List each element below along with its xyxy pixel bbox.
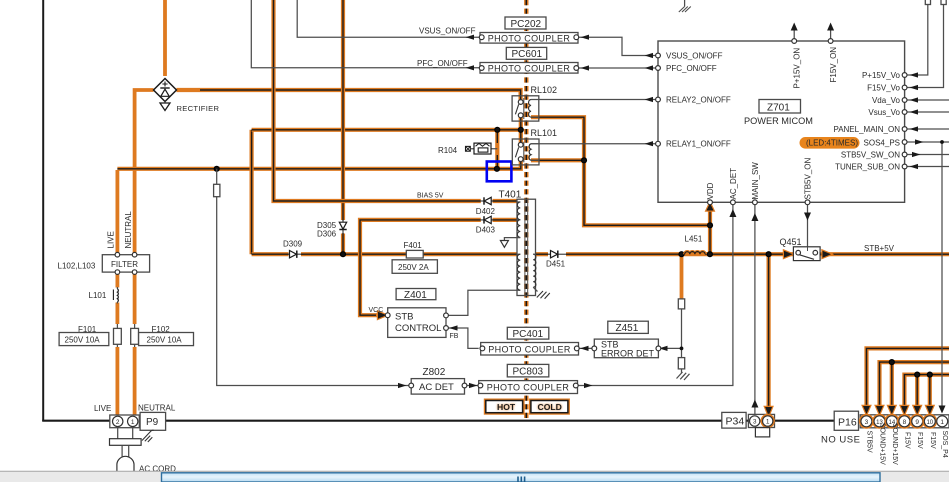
svg-text:PHOTO COUPLER: PHOTO COUPLER xyxy=(487,383,570,393)
IC Z401 STB CONTROL xyxy=(385,308,448,338)
svg-text:PC202: PC202 xyxy=(511,19,542,30)
arrow into PC202 right pin xyxy=(581,35,590,40)
svg-text:1: 1 xyxy=(131,419,135,426)
arrow after PC803 rightward xyxy=(584,383,593,388)
wire STB error det sense drop (x=681.5) xyxy=(680,254,684,299)
svg-text:PFC_ON/OFF: PFC_ON/OFF xyxy=(417,59,468,68)
switch Q451 xyxy=(793,247,820,261)
pin RELAY1_ON/OFF xyxy=(656,140,731,149)
arrow out of Q451 xyxy=(823,251,832,258)
photo coupler PC601 body xyxy=(479,63,578,74)
wire sense divider chain xyxy=(681,309,683,373)
photo coupler PC401 body xyxy=(480,343,579,356)
IC Z451 STB ERROR DET xyxy=(592,339,661,358)
connector P9 label box xyxy=(140,412,166,430)
diode D451 xyxy=(548,251,566,258)
relay RL102 xyxy=(512,96,539,121)
label D305 D306 xyxy=(317,221,337,239)
wire PC401 output to STB ERROR DET xyxy=(578,347,595,349)
wire AC input to rectifier (vertical from top) xyxy=(163,0,167,76)
svg-text:AC_DET: AC_DET xyxy=(729,168,738,200)
resistor top right 2 xyxy=(941,0,946,5)
svg-text:PHOTO COUPLER: PHOTO COUPLER xyxy=(488,33,571,43)
pin PFC_ON/OFF xyxy=(656,64,717,73)
pin Vda_Vo xyxy=(872,96,907,105)
svg-text:VDD: VDD xyxy=(706,182,715,199)
wire live feed filter to fuse F101 and P9 xyxy=(116,272,120,287)
pin SOS4_PS xyxy=(806,138,907,147)
IC Z701 POWER MICOM body xyxy=(658,41,905,202)
svg-text:Vda_Vo: Vda_Vo xyxy=(872,96,901,105)
svg-text:3: 3 xyxy=(753,419,757,426)
connector P34 pin 1 xyxy=(761,415,774,428)
svg-text:RL101: RL101 xyxy=(531,128,558,138)
diode D402 xyxy=(481,197,493,204)
wire neutral feed filter to fuse F102 and P9 xyxy=(133,272,137,324)
pin P+15V_Vo xyxy=(862,71,907,80)
resistor R104 xyxy=(470,143,497,154)
arrow up into VDD pin xyxy=(707,203,714,211)
wire P16 pin10 branch xyxy=(928,375,932,410)
svg-text:P34: P34 xyxy=(726,415,745,427)
svg-text:VSUS_ON/OFF: VSUS_ON/OFF xyxy=(666,51,723,60)
schematic border frame left xyxy=(42,0,44,421)
arrow right on STB5V_SW_ON xyxy=(912,152,921,157)
pin F15V_Vo xyxy=(867,83,907,92)
resistor on AC detect sense line xyxy=(214,184,220,196)
wire VSUS_ON/OFF from top to PC202 xyxy=(297,0,479,37)
photo coupler PC803 body xyxy=(478,381,578,394)
photo coupler PC202 label box xyxy=(505,17,546,30)
wire D403 VCC feed to STB CONTROL xyxy=(360,220,517,315)
ground slanted at T401 secondary xyxy=(537,291,550,299)
wire branch to D309 (x=251.6 vertical) xyxy=(250,130,254,254)
connector P34 key tab xyxy=(755,428,769,437)
filter pin top neutral xyxy=(132,252,137,257)
arrow up on MAIN_SW near Z701 xyxy=(751,213,758,221)
svg-text:NEUTRAL: NEUTRAL xyxy=(138,404,176,413)
diode D309 xyxy=(289,251,302,258)
connector P16 pin row box xyxy=(860,415,949,428)
inductor L101 xyxy=(113,287,118,304)
svg-text:STB5V_SW_ON: STB5V_SW_ON xyxy=(841,150,900,159)
wire AC DET to PC803 xyxy=(467,385,479,387)
photo coupler PC601 label box xyxy=(506,47,546,60)
svg-text:PC601: PC601 xyxy=(512,49,543,60)
arrow right on SOS4_PS xyxy=(915,139,924,144)
connector P34 pin 3 xyxy=(750,416,760,426)
wire F15V_Vo to top resistor xyxy=(906,4,944,88)
svg-text:STB5V: STB5V xyxy=(865,431,872,454)
svg-text:2: 2 xyxy=(116,419,120,426)
fuse F101 xyxy=(114,324,122,347)
connector P9 pin 2 xyxy=(113,416,123,426)
svg-text:RELAY1_ON/OFF: RELAY1_ON/OFF xyxy=(666,140,731,149)
highlight blue box xyxy=(487,162,512,182)
svg-text:TUNER_SUB_ON: TUNER_SUB_ON xyxy=(835,162,900,171)
pin PANEL_MAIN_ON xyxy=(833,125,907,134)
arrow left on TUNER_SUB_ON xyxy=(910,164,919,169)
svg-text:SOUND+15V: SOUND+15V xyxy=(891,423,898,465)
wire Vsus_Vo to right edge xyxy=(906,111,949,113)
wire MAIN_SW Z701 down to P34 pin3 xyxy=(754,204,756,415)
svg-text:PC803: PC803 xyxy=(513,366,544,377)
wire y=130 rail to relay contacts xyxy=(252,128,521,132)
arrow into FB pin xyxy=(449,325,458,330)
wire P16 pin8 feed xyxy=(904,375,949,410)
ground chassis top center xyxy=(679,0,691,12)
AC plug leads xyxy=(118,428,133,439)
pin VSUS_ON/OFF xyxy=(656,51,723,60)
wire PFC_ON/OFF from top to PC601 xyxy=(251,0,479,68)
svg-text:1: 1 xyxy=(766,419,770,426)
junction dots on orange wires xyxy=(214,166,220,172)
svg-text:LIVE: LIVE xyxy=(94,404,111,413)
wire RELAY2_ON/OFF RL102 coil to Z701 xyxy=(531,99,656,101)
IC Z802 AC DET xyxy=(409,379,467,395)
transformer T401 xyxy=(517,199,538,295)
svg-text:PANEL_MAIN_ON: PANEL_MAIN_ON xyxy=(833,125,900,134)
svg-text:RECTIFIER: RECTIFIER xyxy=(177,104,220,113)
svg-text:P9: P9 xyxy=(146,417,159,428)
label COLD box xyxy=(531,401,568,413)
wire D309 / F401 line to T401 primary xyxy=(252,252,517,256)
diode D305/D306 xyxy=(339,221,346,234)
arrow down into P16 pin1 xyxy=(939,406,946,414)
wire live riser from filter to LIVE rail xyxy=(116,170,120,255)
schematic border frame bottom xyxy=(42,420,949,422)
pin AC_DET (bottom) xyxy=(729,168,738,205)
wire STB5V_ON Z701 down to Q451 xyxy=(807,204,809,247)
wire Vda_Vo to right edge xyxy=(906,99,949,101)
pin P+15V_ON (top) xyxy=(792,39,802,89)
svg-text:STB+5V: STB+5V xyxy=(864,244,895,253)
svg-text:L101: L101 xyxy=(89,291,107,300)
arrow into STB ERROR DET right pin xyxy=(659,346,668,351)
svg-text:L451: L451 xyxy=(685,235,703,244)
svg-text:9: 9 xyxy=(915,419,919,426)
arrow into PC601 right pin xyxy=(581,65,590,70)
svg-text:250V 2A: 250V 2A xyxy=(398,263,429,272)
arrow PFC_ON/OFF leftward xyxy=(466,65,475,70)
svg-text:F15V: F15V xyxy=(916,432,923,449)
arrow left on Vda_Vo xyxy=(910,97,919,102)
arrow at Z701 RELAY2 pin xyxy=(645,97,654,102)
svg-text:F15V: F15V xyxy=(929,432,936,449)
wire P+15V_Vo to top resistor xyxy=(906,4,928,75)
svg-text:ERROR DET: ERROR DET xyxy=(601,349,655,359)
arrow up on MAIN_SW near P34 xyxy=(751,400,758,408)
label HOT box xyxy=(486,401,523,413)
svg-text:SOS4_PS: SOS4_PS xyxy=(864,138,900,147)
rectifier output marker triangle xyxy=(160,102,170,111)
arrow into PC401 right pin xyxy=(580,346,589,351)
svg-text:D306: D306 xyxy=(317,229,337,238)
wire P16 pin14 branch xyxy=(890,362,894,410)
svg-text:250V 10A: 250V 10A xyxy=(65,336,101,345)
svg-text:F15V_Vo: F15V_Vo xyxy=(867,83,900,92)
label Z401 box xyxy=(396,289,436,301)
connector P16 pin 3 xyxy=(860,415,873,428)
pin RELAY2_ON/OFF xyxy=(656,95,731,104)
svg-text:F15V: F15V xyxy=(903,432,910,449)
wire STB+5V drop to P34 pin1 xyxy=(766,254,770,413)
arrow down into P34 pin1 xyxy=(765,407,772,416)
svg-text:D451: D451 xyxy=(546,259,566,268)
svg-text:HOT: HOT xyxy=(497,402,516,412)
arrow left on PANEL_MAIN_ON xyxy=(910,126,919,131)
wire RL102 coil output to VDD feed xyxy=(531,117,710,225)
svg-text:FILTER: FILTER xyxy=(111,260,138,269)
filter L102,L103 box xyxy=(102,255,149,272)
svg-text:CONTROL: CONTROL xyxy=(395,323,441,334)
rectifier bridge diamond xyxy=(154,79,177,102)
wire F15V_ON up out of Z701 xyxy=(830,26,832,39)
wire PC803 output up to Z701 AC_DET pin xyxy=(578,204,733,386)
svg-text:VCC: VCC xyxy=(369,307,384,314)
svg-text:P+15V_ON: P+15V_ON xyxy=(793,48,802,89)
svg-text:SOS_P4: SOS_P4 xyxy=(941,431,948,458)
svg-text:P16: P16 xyxy=(838,416,857,428)
ground open triangle at T401 primary xyxy=(500,238,520,248)
svg-text:SOUND+15V: SOUND+15V xyxy=(879,423,886,465)
wire P+15V_ON up out of Z701 xyxy=(793,26,795,39)
junction sense/FB xyxy=(680,347,684,351)
resistor top right 1 xyxy=(925,0,930,5)
svg-text:D309: D309 xyxy=(283,240,303,249)
connector P16 pin 13 xyxy=(873,415,886,428)
svg-text:R104: R104 xyxy=(438,146,458,155)
arrow left on P+15V_Vo xyxy=(910,72,919,77)
highlight pill LED:4TIMES xyxy=(800,137,860,149)
svg-text:Z401: Z401 xyxy=(404,290,427,301)
label PC401 box xyxy=(507,327,549,340)
svg-text:PHOTO COUPLER: PHOTO COUPLER xyxy=(488,63,571,73)
browser footer bar xyxy=(0,471,949,482)
svg-text:VSUS_ON/OFF: VSUS_ON/OFF xyxy=(419,26,476,35)
svg-text:RELAY2_ON/OFF: RELAY2_ON/OFF xyxy=(666,95,731,104)
inductor L451 xyxy=(685,252,705,255)
pin STB5V_ON (bottom) xyxy=(804,157,813,204)
wire Z701 VSUS_ON/OFF to PC202 right pin xyxy=(579,37,656,55)
svg-text:F15V_ON: F15V_ON xyxy=(829,47,838,83)
fusible indicator box for R104 xyxy=(466,146,471,151)
wire VDD riser with arrow into Z701 xyxy=(708,208,712,254)
value box 250V 2A xyxy=(392,260,437,274)
AC plug body xyxy=(117,456,134,474)
wire STB ERROR DET input from sense divider xyxy=(658,347,682,349)
value box 250V 10A (F102) xyxy=(139,333,194,346)
svg-text:NEUTRAL: NEUTRAL xyxy=(124,211,133,249)
wire LIVE rail y=168.8 to relay RL101 lower contact xyxy=(117,160,520,169)
pin F15V_ON (top) xyxy=(828,39,838,83)
wire P16 pin13 feed xyxy=(880,362,949,410)
svg-text:NO USE: NO USE xyxy=(821,435,860,446)
wire Z701 PFC_ON/OFF to PC601 right pin xyxy=(579,67,656,69)
svg-text:PC401: PC401 xyxy=(513,329,544,340)
arrow left on F15V_Vo xyxy=(910,85,919,90)
filter pin top live xyxy=(115,252,120,257)
svg-text:RL102: RL102 xyxy=(531,85,558,95)
svg-text:STB: STB xyxy=(395,312,413,323)
svg-text:8: 8 xyxy=(903,419,907,426)
svg-text:POWER MICOM: POWER MICOM xyxy=(744,116,813,126)
value box 250V 10A (F101) xyxy=(59,333,109,346)
svg-text:Z451: Z451 xyxy=(616,323,639,334)
svg-text:FB: FB xyxy=(450,333,459,340)
pin STB5V_SW_ON xyxy=(841,150,907,159)
wire RELAY1_ON/OFF RL101 coil to Z701 xyxy=(531,143,656,145)
label Z451 box xyxy=(608,321,649,334)
connector P16 pin 14 xyxy=(885,415,898,428)
svg-text:(LED:4TIMES): (LED:4TIMES) xyxy=(806,139,858,148)
AC plug crossbar xyxy=(110,439,142,446)
arrow into VCC pin xyxy=(378,312,387,319)
arrow up into AC_DET pin xyxy=(729,209,736,217)
connector P16 pin 9 xyxy=(911,415,924,428)
arrow down on STB5V_ON xyxy=(804,213,811,221)
connector P9 pin box xyxy=(110,415,140,428)
hot/cold isolation boundary dashed line xyxy=(524,0,528,420)
wire BIAS 5V line (x=273.5 from top, D402 to T401) xyxy=(274,0,518,201)
svg-text:Z802: Z802 xyxy=(423,367,446,378)
relay RL101 xyxy=(512,139,539,165)
connector P16 label box xyxy=(834,411,858,430)
wire FB from PC401 to STB CONTROL xyxy=(448,328,479,348)
wire SOS4_PS output to right and down to P16 pin1 xyxy=(906,142,949,409)
svg-text:Z701: Z701 xyxy=(767,102,790,113)
scrollbar grip xyxy=(518,477,525,482)
arrow up F15V_ON xyxy=(827,23,834,31)
pin VDD (bottom) xyxy=(706,182,715,204)
arrow between AC DET and PC803 xyxy=(469,383,478,388)
arrow up P+15V_ON xyxy=(791,23,798,31)
svg-text:L102,L103: L102,L103 xyxy=(58,262,96,271)
wire STB5V_SW_ON to right edge xyxy=(906,154,949,156)
svg-text:Vsus_Vo: Vsus_Vo xyxy=(868,108,900,117)
svg-text:F401: F401 xyxy=(404,241,423,250)
filter pin bottom neutral xyxy=(132,270,137,275)
svg-text:STB5V_ON: STB5V_ON xyxy=(804,157,813,199)
arrow at Z701 PFC pin leftward xyxy=(645,65,654,70)
svg-text:PFC_ON/OFF: PFC_ON/OFF xyxy=(666,64,717,73)
fuse F401 xyxy=(406,250,423,258)
diode D403 xyxy=(481,216,493,223)
svg-text:10: 10 xyxy=(926,420,933,426)
fuse F102 xyxy=(131,324,139,347)
pin TUNER_SUB_ON xyxy=(835,162,907,171)
filter pin bottom live xyxy=(115,270,120,275)
ground slanted below divider xyxy=(677,372,690,380)
junction SOS4_PS xyxy=(940,140,944,144)
svg-text:P+15V_Vo: P+15V_Vo xyxy=(862,71,901,80)
wire between relay contacts RL102/RL101 xyxy=(519,115,523,144)
photo coupler PC202 body xyxy=(479,33,578,44)
resistor sense lower xyxy=(678,358,684,369)
arrow VSUS_ON/OFF leftward xyxy=(466,35,475,40)
wire D305 branch (x=343 vertical from top) xyxy=(341,0,345,254)
wire neutral riser from filter up to rectifier line xyxy=(135,90,154,255)
svg-text:LIVE: LIVE xyxy=(107,231,116,248)
wire STB CONTROL pin to T401 auxiliary winding xyxy=(446,290,517,315)
svg-text:PHOTO COUPLER: PHOTO COUPLER xyxy=(488,344,571,354)
wire rectifier output to relay RL102 contact xyxy=(177,90,521,101)
svg-text:BIAS 5V: BIAS 5V xyxy=(417,193,444,200)
connector P9 pin 1 xyxy=(128,416,138,426)
pin Vsus_Vo xyxy=(868,108,907,117)
wire AC detect sense from LIVE rail down and across to AC DET xyxy=(217,169,410,386)
wire P16 pin3 feed xyxy=(867,348,949,410)
wire PANEL_MAIN_ON to right edge xyxy=(906,128,949,130)
svg-text:1: 1 xyxy=(940,419,944,426)
wire RL101 coil output join xyxy=(531,158,584,162)
wire R104 branch vertical xyxy=(495,130,499,169)
connector P16 pin 8 xyxy=(898,415,911,428)
arrow into AC DET left pin xyxy=(398,383,407,388)
connector P16 pin 1 xyxy=(937,416,948,427)
wire STB+5V secondary rail T401 to right edge xyxy=(536,252,949,256)
svg-text:D402: D402 xyxy=(476,207,496,216)
svg-text:T401: T401 xyxy=(499,190,522,201)
strain relief squiggle xyxy=(142,430,154,442)
resistor sense upper xyxy=(678,299,684,309)
arrow left on Vsus_Vo xyxy=(910,109,919,114)
svg-text:D403: D403 xyxy=(476,225,496,234)
svg-text:Q451: Q451 xyxy=(780,237,802,247)
svg-text:AC DET: AC DET xyxy=(419,382,454,393)
svg-text:3: 3 xyxy=(865,419,869,426)
label Z701 box xyxy=(759,100,801,114)
svg-text:250V 10A: 250V 10A xyxy=(147,336,183,345)
arrow at Z701 VSUS pin leftward xyxy=(645,53,654,58)
arrow at Z701 RELAY1 pin xyxy=(645,141,654,146)
AC plug prongs xyxy=(122,445,129,457)
label PC803 box xyxy=(507,364,549,377)
arrow into Q451 xyxy=(784,251,793,258)
wire P16 pin9 branch xyxy=(915,375,919,410)
connector P16 pin 10 xyxy=(923,415,936,428)
svg-text:MAIN_SW: MAIN_SW xyxy=(751,162,760,200)
wire TUNER_SUB_ON to right edge xyxy=(906,166,949,168)
connector P34 pin box xyxy=(748,414,774,427)
svg-text:COLD: COLD xyxy=(538,402,562,412)
connector P34 label box xyxy=(722,412,746,428)
pin MAIN_SW (bottom) xyxy=(751,162,760,205)
